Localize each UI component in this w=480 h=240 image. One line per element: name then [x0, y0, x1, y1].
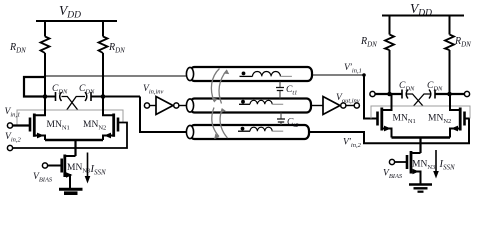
- wire VBIAS to gate left: [48, 165, 61, 167]
- wire top TL to right circuit: [312, 74, 364, 76]
- wire Vin1 to gate: [13, 124, 29, 126]
- svg-text:MNN2: MNN2: [83, 120, 106, 132]
- svg-text:VBIAS: VBIAS: [383, 169, 403, 181]
- wire terminal to inverter: [150, 105, 156, 107]
- resistor RDN left-1: [41, 37, 50, 54]
- svg-text:Vin,inv: Vin,inv: [143, 84, 164, 96]
- wire drain node line right ckt: [375, 93, 464, 95]
- terminal output left (right ckt): [370, 91, 375, 96]
- transistor MN_N3 right: [406, 155, 409, 169]
- transistor MN_N1 left: [29, 118, 32, 132]
- wire bottom TL to right circuit V'in,2: [309, 119, 469, 144]
- svg-text:Ct1: Ct1: [286, 85, 297, 97]
- wire cross X left: [62, 97, 86, 111]
- wire middle TL to right inverter: [311, 105, 323, 107]
- wire cross X right: [406, 94, 432, 106]
- transistor MN_N3 left: [60, 159, 63, 173]
- svg-text:ISSN: ISSN: [90, 164, 107, 177]
- transmission line bottom body: [190, 125, 309, 139]
- transistor MN_N2 right (mirrored): [463, 112, 466, 126]
- svg-text:MNN1: MNN1: [47, 120, 70, 132]
- svg-text:MNN2: MNN2: [428, 114, 451, 126]
- wire tail riser right: [419, 138, 421, 154]
- wire V'in1 riser to MN gate: [364, 75, 377, 119]
- capacitor CDN left-2: [85, 92, 87, 101]
- ground left: [59, 188, 83, 191]
- capacitor CDN right-2: [429, 90, 431, 99]
- wire Vin2 to MN_N2 gate: [13, 123, 127, 149]
- svg-text:CDN: CDN: [79, 84, 95, 96]
- terminal Vin1: [7, 123, 12, 128]
- wire drain node line segs: [45, 96, 140, 98]
- wire stub rail to R4: [449, 16, 451, 35]
- inverter left: [156, 97, 173, 115]
- resistor RDN right-2: [445, 35, 454, 51]
- wire inverted output to bottom TL: [140, 97, 186, 133]
- coupling arrow down-1: [212, 108, 219, 137]
- transistor MN_N1 right: [376, 112, 379, 126]
- wire R2 down to drain node: [102, 53, 104, 97]
- current arrow ISSN left: [87, 153, 89, 178]
- wire cross-coupling gray right side: [84, 110, 123, 123]
- node dot drain3: [387, 92, 392, 97]
- terminal Vout,inv: [354, 103, 359, 108]
- svg-text:RDN: RDN: [108, 42, 125, 55]
- node dot drain4: [447, 92, 452, 97]
- transistor MN_N2 left (mirrored): [117, 118, 120, 132]
- wire inverter to output terminal: [346, 105, 354, 107]
- wire tail riser left: [74, 140, 76, 156]
- wire source bus right: [392, 136, 451, 138]
- wire stub rail to R2: [102, 21, 104, 37]
- node dot drain1: [43, 94, 48, 99]
- inductor symbol middle TL: [241, 100, 245, 104]
- node dot drain2: [101, 94, 106, 99]
- svg-text:RDN: RDN: [360, 36, 377, 49]
- terminal Vin2: [7, 145, 12, 150]
- svg-text:MNN3: MNN3: [412, 160, 435, 172]
- resistor RDN left-2: [99, 37, 108, 54]
- capacitor Ct2: [280, 113, 282, 126]
- inductor symbol bottom TL: [241, 127, 245, 131]
- svg-text:VBIAS: VBIAS: [33, 172, 53, 184]
- coupling arrow up-1: [211, 69, 219, 102]
- svg-text:CDN: CDN: [399, 81, 415, 93]
- wire cross-coupling gray left side: [17, 110, 84, 126]
- svg-text:CDN: CDN: [427, 81, 443, 93]
- svg-text:MNN1: MNN1: [393, 114, 416, 126]
- svg-text:Vin,1: Vin,1: [5, 107, 21, 119]
- wire stub rail to R3: [389, 16, 391, 35]
- capacitor CDN right-1: [401, 90, 403, 99]
- svg-text:RDN: RDN: [454, 36, 471, 49]
- wire cross-coupling gray left (right ckt): [371, 106, 428, 119]
- wire VDD rail left: [36, 20, 117, 22]
- current arrow ISSN right: [435, 150, 437, 172]
- resistor RDN right-1: [385, 35, 394, 51]
- terminal VBIAS left: [42, 163, 47, 168]
- wire to top transmission line: [46, 75, 187, 77]
- svg-text:VDD: VDD: [59, 3, 81, 21]
- wire R3 down to drain node: [389, 50, 391, 94]
- node dot corner: [362, 73, 366, 77]
- wire cross-coupling gray right (right ckt): [428, 106, 470, 119]
- wire VBIAS to gate right: [395, 161, 406, 163]
- svg-text:Ct2: Ct2: [287, 118, 299, 130]
- wire VDD rail right: [382, 15, 464, 17]
- transmission line bottom left end ellipse: [186, 125, 193, 138]
- svg-text:Vin,2: Vin,2: [5, 132, 21, 144]
- terminal VBIAS right: [389, 159, 394, 164]
- svg-text:V′in,1: V′in,1: [344, 63, 362, 75]
- capacitor Ct1: [279, 82, 281, 99]
- terminal Vin,inv: [144, 103, 149, 108]
- inductor symbol top TL: [242, 72, 246, 76]
- coupling arrow up-2: [219, 70, 227, 104]
- wire output loop rectangle left: [24, 77, 46, 97]
- wire inverter to middle TL: [179, 105, 186, 107]
- ground right: [409, 183, 432, 186]
- coupling arrow down-2: [220, 110, 227, 139]
- svg-text:RDN: RDN: [9, 42, 26, 55]
- wire source bus left: [45, 139, 103, 141]
- svg-text:CDN: CDN: [52, 84, 68, 96]
- svg-text:V′in,2: V′in,2: [343, 138, 362, 150]
- terminal output right (right ckt): [464, 91, 469, 96]
- transmission line middle body: [190, 99, 311, 113]
- transmission line middle left end ellipse: [186, 99, 193, 112]
- svg-text:Vout,inv: Vout,inv: [336, 93, 360, 105]
- wire R4 down to drain node: [449, 50, 451, 94]
- wire stub rail to R1: [44, 21, 46, 37]
- svg-text:ISSN: ISSN: [439, 159, 456, 172]
- inverter right: [323, 97, 340, 115]
- transmission line top body: [190, 67, 312, 81]
- capacitor CDN left-1: [55, 92, 57, 101]
- transmission line top left end ellipse: [186, 67, 193, 80]
- wire R1 down to drain node: [44, 53, 46, 97]
